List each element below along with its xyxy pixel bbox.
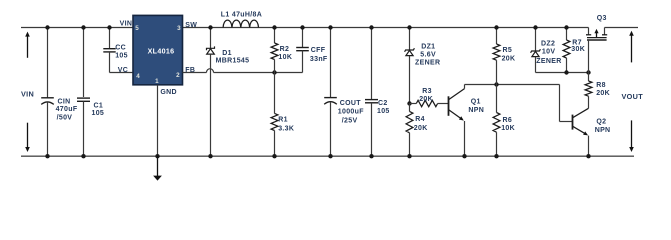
svg-text:DZ1: DZ1 (421, 43, 435, 50)
svg-text:R6: R6 (503, 117, 513, 124)
svg-text:Q3: Q3 (597, 15, 607, 22)
svg-text:470uF: 470uF (56, 106, 78, 113)
svg-text:20K: 20K (419, 96, 433, 103)
svg-text:Q1: Q1 (471, 99, 481, 106)
svg-text:105: 105 (92, 110, 105, 117)
svg-text:1: 1 (155, 78, 159, 85)
svg-text:R3: R3 (422, 88, 432, 95)
svg-text:105: 105 (115, 53, 128, 60)
svg-text:NPN: NPN (468, 107, 484, 114)
svg-text:/25V: /25V (342, 118, 358, 125)
svg-text:D1: D1 (222, 50, 232, 57)
svg-text:C1: C1 (94, 102, 104, 109)
svg-text:MBR1545: MBR1545 (216, 57, 250, 64)
svg-text:VOUT: VOUT (622, 92, 644, 101)
svg-text:20K: 20K (596, 90, 610, 97)
svg-text:ZENER: ZENER (415, 60, 440, 67)
svg-text:COUT: COUT (340, 100, 362, 107)
svg-text:XL4016: XL4016 (148, 48, 175, 56)
svg-text:R4: R4 (415, 116, 425, 123)
svg-text:10K: 10K (278, 54, 292, 61)
svg-text:VIN: VIN (120, 20, 133, 27)
svg-text:ZENER: ZENER (536, 58, 561, 65)
svg-text:CC: CC (115, 45, 126, 52)
svg-text:L1 47uH/8A: L1 47uH/8A (221, 11, 262, 18)
svg-text:30K: 30K (571, 46, 585, 53)
svg-text:10K: 10K (501, 125, 515, 132)
svg-text:CFF: CFF (311, 47, 326, 54)
svg-text:CIN: CIN (58, 99, 71, 106)
svg-text:4: 4 (136, 73, 140, 80)
svg-text:DZ2: DZ2 (541, 40, 555, 47)
svg-text:3.3K: 3.3K (278, 125, 294, 132)
svg-text:R1: R1 (278, 117, 288, 124)
svg-text:C2: C2 (378, 100, 388, 107)
svg-text:3: 3 (177, 25, 181, 32)
svg-text:105: 105 (377, 108, 390, 115)
svg-text:R2: R2 (280, 46, 290, 53)
svg-text:20K: 20K (502, 55, 516, 62)
svg-text:VC: VC (118, 67, 128, 74)
svg-text:R5: R5 (503, 47, 513, 54)
svg-text:FB: FB (185, 67, 195, 74)
svg-text:20K: 20K (414, 125, 428, 132)
svg-text:VIN: VIN (21, 89, 34, 98)
svg-text:5: 5 (135, 25, 139, 32)
svg-text:5.6V: 5.6V (420, 52, 436, 59)
svg-text:NPN: NPN (595, 127, 611, 134)
svg-text:SW: SW (185, 22, 197, 29)
svg-text:10V: 10V (542, 49, 555, 56)
svg-text:Q2: Q2 (596, 118, 606, 125)
svg-text:/50V: /50V (57, 114, 73, 121)
svg-text:R8: R8 (596, 82, 606, 89)
svg-text:1000uF: 1000uF (338, 109, 364, 116)
svg-text:GND: GND (160, 89, 177, 96)
svg-text:2: 2 (176, 72, 180, 79)
svg-text:33nF: 33nF (310, 56, 328, 63)
